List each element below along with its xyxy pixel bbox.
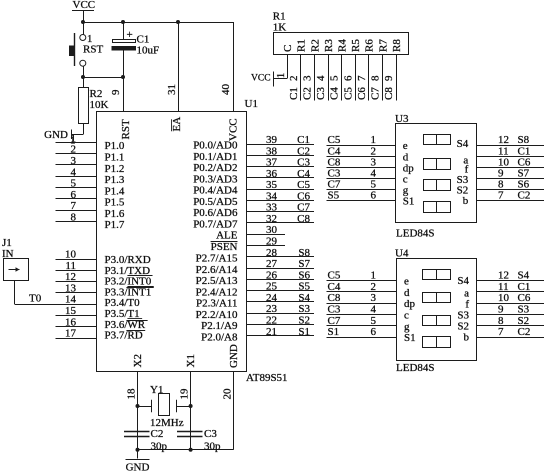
svg-text:33: 33 — [266, 202, 278, 214]
svg-text:30p: 30p — [204, 441, 221, 453]
svg-text:g: g — [404, 321, 410, 333]
svg-text:C7: C7 — [328, 315, 341, 327]
svg-text:C7: C7 — [297, 202, 310, 214]
svg-text:39: 39 — [266, 134, 278, 146]
svg-text:10: 10 — [498, 292, 510, 304]
svg-text:15: 15 — [65, 305, 77, 317]
svg-text:1: 1 — [70, 135, 76, 147]
svg-text:18: 18 — [126, 388, 138, 400]
svg-text:S3: S3 — [518, 304, 530, 316]
svg-text:X1: X1 — [185, 354, 197, 367]
svg-text:C6: C6 — [356, 87, 368, 100]
svg-text:R5: R5 — [350, 39, 362, 52]
svg-text:27: 27 — [266, 258, 278, 270]
svg-text:C3: C3 — [204, 428, 217, 440]
svg-text:29: 29 — [266, 236, 278, 248]
svg-text:5: 5 — [71, 178, 77, 190]
svg-text:6: 6 — [71, 189, 77, 201]
svg-text:S3: S3 — [457, 309, 469, 321]
svg-text:b: b — [463, 195, 469, 207]
svg-text:S1: S1 — [404, 332, 416, 344]
svg-text:PSEN: PSEN — [211, 241, 238, 253]
svg-text:S4: S4 — [298, 292, 310, 304]
svg-text:4: 4 — [71, 166, 77, 178]
svg-text:3: 3 — [71, 155, 77, 167]
svg-text:LED84S: LED84S — [396, 228, 435, 240]
svg-text:19: 19 — [179, 388, 191, 400]
svg-text:C4: C4 — [328, 281, 341, 293]
svg-text:30: 30 — [266, 224, 278, 236]
svg-text:P0.3/AD3: P0.3/AD3 — [193, 173, 238, 185]
svg-text:AT89S51: AT89S51 — [246, 372, 288, 384]
svg-text:7: 7 — [71, 200, 77, 212]
svg-text:C3: C3 — [328, 304, 341, 316]
svg-text:24: 24 — [266, 292, 278, 304]
svg-text:X2: X2 — [132, 354, 144, 367]
svg-text:P1.0: P1.0 — [105, 140, 125, 152]
svg-text:10K: 10K — [90, 99, 109, 111]
svg-text:6: 6 — [371, 190, 377, 202]
svg-text:C5: C5 — [328, 270, 341, 282]
svg-text:C5: C5 — [297, 179, 310, 191]
svg-text:S1: S1 — [328, 326, 340, 338]
svg-text:R3: R3 — [323, 39, 335, 52]
svg-text:7: 7 — [498, 326, 504, 338]
svg-text:P2.7/A15: P2.7/A15 — [196, 253, 238, 265]
svg-text:C7: C7 — [370, 87, 382, 100]
svg-text:P0.1/AD1: P0.1/AD1 — [193, 151, 237, 163]
svg-text:S2: S2 — [298, 314, 310, 326]
svg-text:VCC: VCC — [251, 74, 271, 84]
svg-text:P2.3/A11: P2.3/A11 — [196, 298, 237, 310]
svg-text:5: 5 — [371, 315, 377, 327]
svg-text:1K: 1K — [273, 22, 287, 34]
svg-text:c: c — [404, 310, 409, 322]
svg-text:C6: C6 — [297, 190, 310, 202]
svg-text:8: 8 — [71, 211, 77, 223]
svg-text:P2.2/A10: P2.2/A10 — [196, 309, 238, 321]
svg-text:GND: GND — [126, 462, 150, 472]
svg-text:C2: C2 — [518, 326, 531, 338]
svg-text:e: e — [404, 276, 409, 288]
svg-text:14: 14 — [65, 294, 77, 306]
svg-text:+: + — [127, 29, 133, 41]
svg-text:C8: C8 — [328, 292, 341, 304]
svg-text:23: 23 — [266, 303, 278, 315]
svg-text:32: 32 — [266, 213, 277, 225]
svg-text:35: 35 — [266, 179, 278, 191]
svg-text:21: 21 — [266, 326, 277, 338]
svg-text:b: b — [464, 332, 470, 344]
svg-text:EA: EA — [171, 117, 183, 132]
svg-text:3: 3 — [371, 292, 377, 304]
svg-text:R6: R6 — [364, 39, 376, 52]
svg-text:26: 26 — [266, 269, 278, 281]
svg-text:28: 28 — [266, 247, 278, 259]
svg-text:P2.1/A9: P2.1/A9 — [201, 320, 238, 332]
svg-text:6: 6 — [342, 75, 354, 81]
svg-text:P1.7: P1.7 — [105, 219, 125, 231]
svg-text:13: 13 — [65, 282, 77, 294]
svg-text:RST: RST — [120, 119, 132, 139]
svg-text:25: 25 — [266, 281, 278, 293]
svg-text:P0.4/AD4: P0.4/AD4 — [193, 185, 238, 197]
svg-text:22: 22 — [266, 314, 277, 326]
svg-text:R1: R1 — [296, 39, 308, 52]
svg-text:d: d — [404, 287, 410, 299]
svg-text:VCC: VCC — [228, 118, 240, 141]
svg-text:C8: C8 — [383, 87, 395, 100]
svg-text:P2.0/A8: P2.0/A8 — [201, 331, 238, 343]
svg-text:36: 36 — [266, 168, 278, 180]
svg-text:S6: S6 — [298, 269, 310, 281]
svg-text:R7: R7 — [377, 39, 389, 52]
svg-text:C2: C2 — [302, 87, 314, 100]
svg-text:C5: C5 — [342, 87, 354, 100]
svg-text:C3: C3 — [315, 87, 327, 100]
svg-text:Y1: Y1 — [150, 384, 163, 396]
svg-text:dp: dp — [404, 298, 416, 310]
svg-text:16: 16 — [65, 316, 77, 328]
svg-text:C1: C1 — [288, 87, 300, 100]
svg-text:C4: C4 — [329, 87, 341, 100]
svg-text:R8: R8 — [391, 39, 403, 52]
svg-text:LED84S: LED84S — [396, 362, 435, 374]
svg-text:GND: GND — [44, 129, 68, 141]
svg-text:3: 3 — [302, 75, 314, 81]
svg-text:9: 9 — [383, 75, 395, 81]
svg-text:C1: C1 — [518, 281, 531, 293]
svg-text:C2: C2 — [518, 190, 531, 202]
svg-text:U4: U4 — [395, 248, 409, 260]
svg-text:10uF: 10uF — [137, 45, 160, 57]
svg-text:C4: C4 — [297, 168, 310, 180]
svg-text:8: 8 — [498, 315, 504, 327]
svg-text:P3.7/RD: P3.7/RD — [105, 330, 143, 342]
svg-text:P1.5: P1.5 — [105, 197, 125, 209]
svg-text:17: 17 — [65, 328, 77, 340]
svg-text:P1.2: P1.2 — [105, 163, 125, 175]
svg-text:C2: C2 — [297, 145, 310, 157]
svg-text:C: C — [282, 45, 294, 52]
svg-text:2: 2 — [288, 76, 300, 82]
svg-text:RST: RST — [83, 44, 103, 56]
svg-text:C1: C1 — [297, 134, 310, 146]
svg-text:P1.1: P1.1 — [105, 151, 125, 163]
svg-text:S4: S4 — [457, 138, 469, 150]
svg-text:S4: S4 — [457, 275, 469, 287]
svg-text:T0: T0 — [29, 293, 42, 305]
svg-text:9: 9 — [498, 304, 504, 316]
svg-text:U1: U1 — [245, 98, 258, 110]
svg-text:4: 4 — [315, 75, 327, 81]
svg-text:S1: S1 — [403, 196, 415, 208]
svg-text:11: 11 — [498, 281, 509, 293]
svg-text:P2.5/A13: P2.5/A13 — [196, 275, 238, 287]
svg-text:GND: GND — [228, 344, 240, 368]
svg-text:C6: C6 — [518, 292, 531, 304]
svg-text:S3: S3 — [298, 303, 310, 315]
svg-text:8: 8 — [370, 75, 382, 81]
svg-text:7: 7 — [356, 75, 368, 81]
svg-text:30p: 30p — [151, 441, 168, 453]
svg-text:S4: S4 — [518, 270, 530, 282]
svg-text:P1.6: P1.6 — [105, 208, 125, 220]
svg-text:2: 2 — [371, 281, 377, 293]
svg-text:9: 9 — [110, 89, 122, 95]
svg-text:P1.3: P1.3 — [105, 174, 125, 186]
svg-text:R4: R4 — [337, 39, 349, 52]
svg-text:34: 34 — [266, 190, 278, 202]
svg-text:1: 1 — [371, 270, 377, 282]
svg-text:10: 10 — [65, 249, 77, 261]
svg-text:S7: S7 — [298, 258, 310, 270]
svg-text:1: 1 — [275, 73, 287, 79]
svg-text:P1.4: P1.4 — [105, 185, 125, 197]
svg-text:38: 38 — [266, 145, 278, 157]
svg-text:20: 20 — [221, 388, 233, 400]
svg-text:4: 4 — [371, 304, 377, 316]
svg-text:S8: S8 — [298, 247, 310, 259]
svg-text:P0.5/AD5: P0.5/AD5 — [193, 196, 238, 208]
svg-text:P0.6/AD6: P0.6/AD6 — [193, 207, 238, 219]
svg-text:S1: S1 — [298, 326, 310, 338]
svg-text:S2: S2 — [518, 315, 530, 327]
svg-text:P2.6/A14: P2.6/A14 — [196, 264, 238, 276]
svg-text:6: 6 — [371, 326, 377, 338]
svg-text:31: 31 — [166, 84, 178, 95]
svg-text:P0.2/AD2: P0.2/AD2 — [193, 162, 237, 174]
svg-text:7: 7 — [498, 190, 504, 202]
svg-text:C8: C8 — [297, 213, 310, 225]
svg-text:R2: R2 — [309, 39, 321, 52]
svg-text:11: 11 — [65, 260, 76, 272]
svg-text:37: 37 — [266, 157, 278, 169]
svg-text:P2.4/A12: P2.4/A12 — [196, 286, 238, 298]
svg-text:40: 40 — [220, 84, 232, 96]
svg-text:C2: C2 — [151, 428, 164, 440]
svg-text:5: 5 — [329, 75, 341, 81]
svg-text:12: 12 — [65, 271, 76, 283]
svg-text:S5: S5 — [298, 281, 310, 293]
svg-text:ALE: ALE — [216, 230, 238, 242]
svg-text:12: 12 — [498, 270, 509, 282]
svg-text:S5: S5 — [328, 190, 340, 202]
svg-text:C3: C3 — [297, 157, 310, 169]
svg-text:VCC: VCC — [73, 0, 96, 11]
